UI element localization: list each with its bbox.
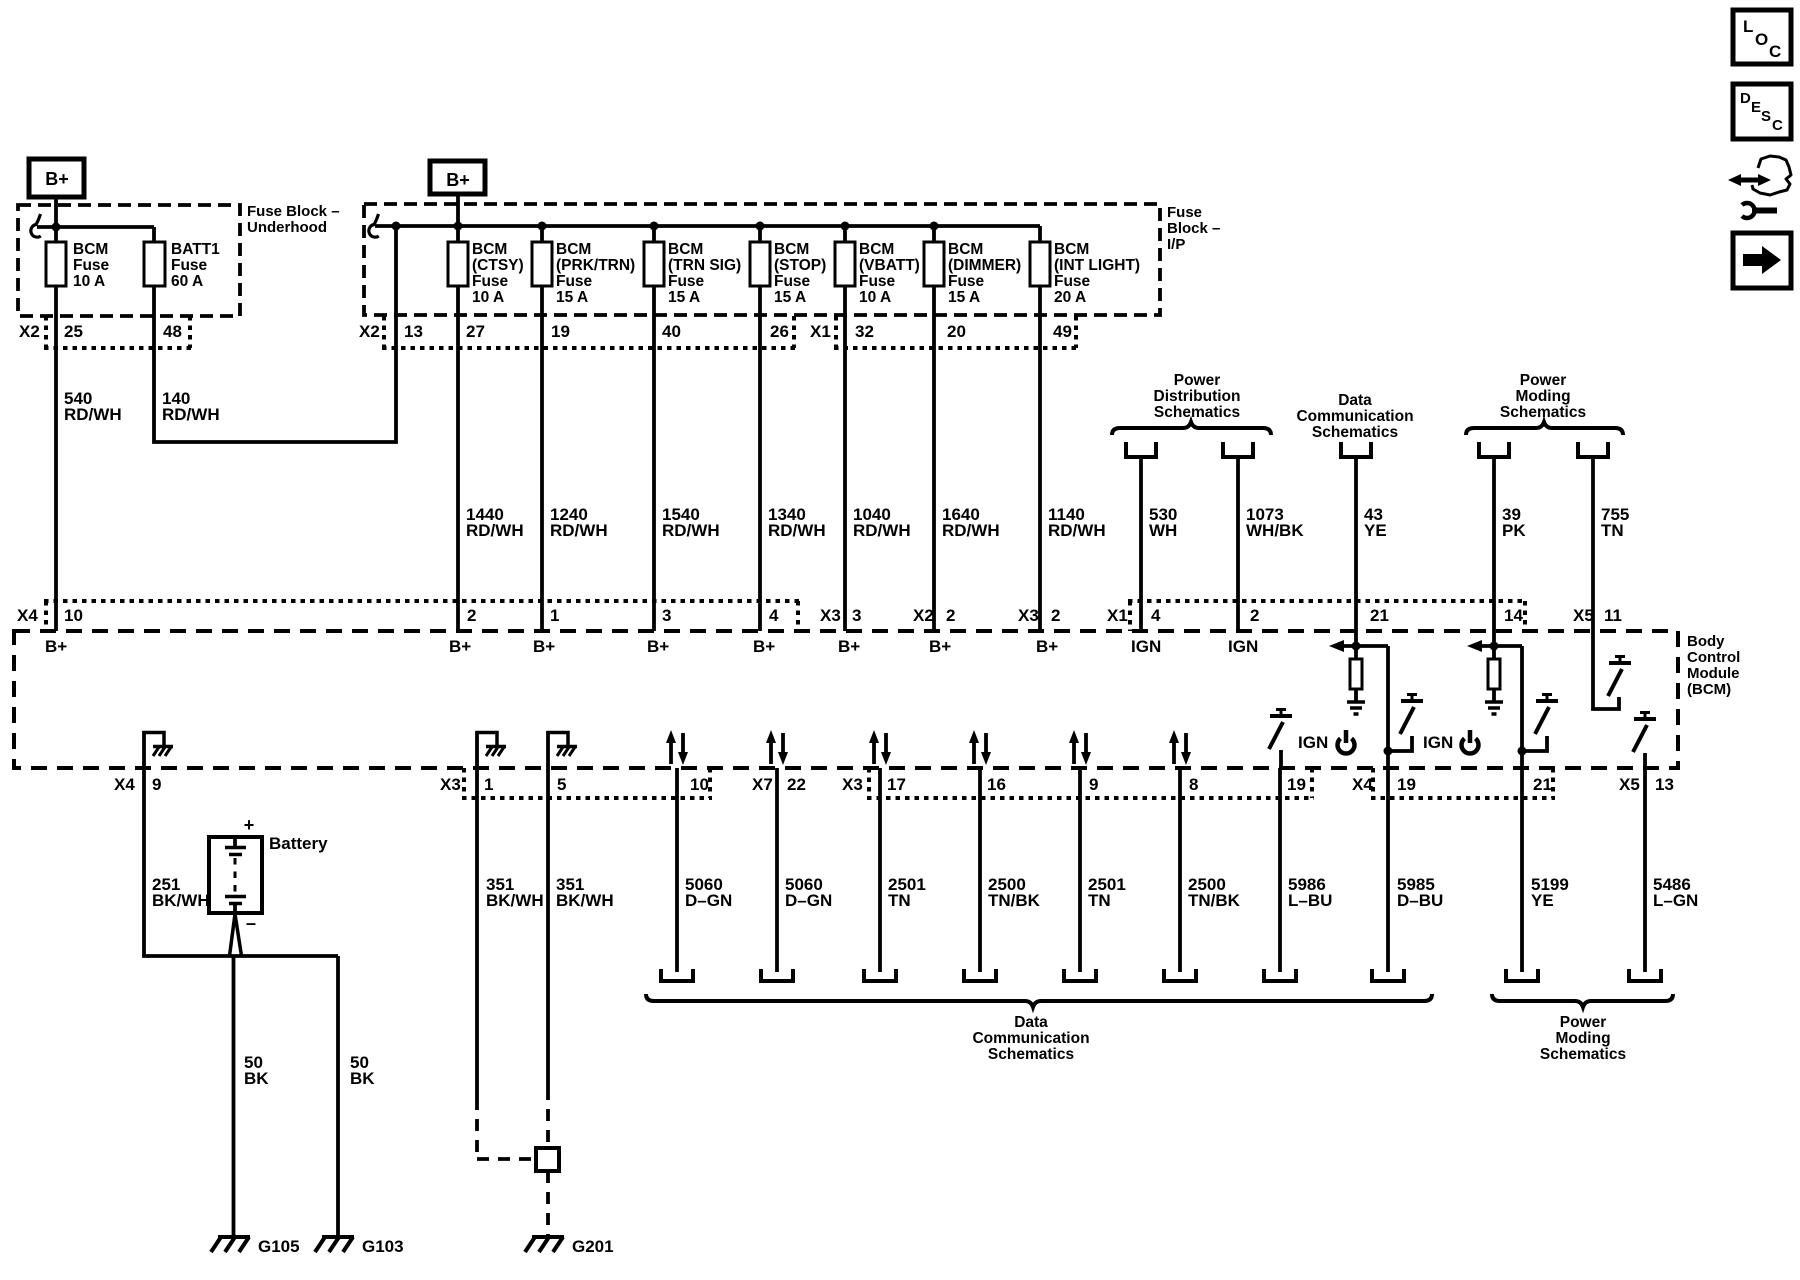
off-page tab 5985 — [1372, 969, 1404, 981]
label 5486 L-GN — [1653, 875, 1698, 910]
svg-text:Communication: Communication — [1296, 408, 1413, 425]
header Power Moding Schematics — [1500, 372, 1586, 421]
ground lead pin X3-1 (chassis ground inside BCM) — [476, 731, 507, 768]
label 1640 RD/WH — [942, 505, 1000, 540]
svg-text:BK/WH: BK/WH — [486, 891, 544, 910]
svg-text:O: O — [1755, 30, 1768, 49]
wire 1440 RD/WH column — [456, 226, 460, 631]
svg-text:Schematics: Schematics — [988, 1046, 1074, 1063]
svg-text:Moding: Moding — [1555, 1030, 1610, 1047]
svg-text:48: 48 — [163, 322, 182, 341]
label 2501 TN (1) — [888, 875, 926, 910]
off-page tab 5060 (2) — [761, 969, 793, 981]
wire 5985 D-BU (pin X4-19) — [1386, 768, 1390, 972]
svg-text:Schematics: Schematics — [1500, 404, 1586, 421]
svg-text:BCM: BCM — [73, 241, 108, 258]
svg-text:Module: Module — [1687, 665, 1740, 682]
data link arrows pin 16 — [969, 730, 991, 765]
svg-text:RD/WH: RD/WH — [853, 521, 911, 540]
svg-text:IGN: IGN — [1423, 733, 1453, 752]
svg-text:I/P: I/P — [1167, 236, 1185, 253]
svg-text:TN: TN — [1088, 891, 1111, 910]
brace data communication — [646, 994, 1432, 1007]
connector terminal hook (underhood) — [31, 214, 41, 237]
svg-text:X2: X2 — [19, 322, 40, 341]
svg-text:RD/WH: RD/WH — [768, 521, 826, 540]
svg-text:G201: G201 — [572, 1237, 614, 1256]
off-page connector tab 530 — [1126, 442, 1156, 457]
pin labels X1 32 20 49 — [810, 322, 1072, 341]
off-page tab 5060 (1) — [661, 969, 693, 981]
svg-text:9: 9 — [152, 775, 161, 794]
svg-text:2: 2 — [467, 606, 476, 625]
svg-text:(PRK/TRN): (PRK/TRN) — [556, 257, 635, 274]
label 50 BK (G103) — [350, 1053, 375, 1088]
connector X1 BCM top (dotted) — [1128, 601, 1527, 631]
label 39 PK — [1502, 505, 1526, 540]
svg-text:49: 49 — [1053, 322, 1072, 341]
svg-text:RD/WH: RD/WH — [466, 521, 524, 540]
data link arrows pin 9 — [1069, 730, 1091, 765]
svg-text:BCM: BCM — [948, 241, 983, 258]
svg-text:D–GN: D–GN — [785, 891, 832, 910]
svg-text:TN: TN — [888, 891, 911, 910]
wire B+ feed I/P — [456, 194, 460, 226]
svg-text:WH: WH — [1149, 521, 1177, 540]
off-page tab 2501 (2) — [1064, 969, 1096, 981]
wire arrow corner down to pin X4-19 — [1386, 646, 1390, 768]
svg-text:2: 2 — [1051, 606, 1060, 625]
fuse block underhood dashed box — [18, 205, 240, 316]
svg-text:14: 14 — [1504, 606, 1523, 625]
fuse BCM (STOP) 15 A — [750, 241, 826, 306]
data link arrows pin 8 — [1169, 730, 1191, 765]
svg-text:BCM: BCM — [774, 241, 809, 258]
pin labels X2 13 27 19 40 26 — [359, 322, 789, 341]
svg-text:1: 1 — [550, 606, 559, 625]
svg-text:TN: TN — [1601, 521, 1624, 540]
svg-text:Fuse: Fuse — [556, 273, 593, 290]
svg-text:Fuse: Fuse — [73, 257, 110, 274]
connector X3 BCM bottom-mid (dotted) — [867, 768, 1314, 798]
label 5060 D-GN (1) — [685, 875, 732, 910]
receive arrow (pin 14) — [1467, 640, 1522, 652]
svg-text:10: 10 — [64, 606, 83, 625]
svg-text:13: 13 — [404, 322, 423, 341]
svg-text:B+: B+ — [45, 169, 69, 189]
svg-text:Underhood: Underhood — [247, 219, 327, 236]
label IGN 1 with power icon — [1298, 730, 1355, 753]
svg-text:L–BU: L–BU — [1288, 891, 1332, 910]
fuse block I/P dashed box — [364, 204, 1160, 315]
svg-text:–: – — [246, 913, 256, 933]
receive arrow (pin 21) — [1329, 640, 1388, 652]
svg-text:10 A: 10 A — [859, 289, 891, 306]
label 1340 RD/WH — [768, 505, 826, 540]
label 50 BK (G105) — [244, 1053, 269, 1088]
svg-text:BCM: BCM — [1054, 241, 1089, 258]
off-page tab 5986 — [1264, 969, 1296, 981]
svg-text:25: 25 — [64, 322, 83, 341]
svg-text:Fuse: Fuse — [948, 273, 985, 290]
junction nodes on bus — [392, 222, 939, 231]
svg-text:Control: Control — [1687, 649, 1740, 666]
label 5985 D-BU — [1397, 875, 1443, 910]
svg-text:Moding: Moding — [1515, 388, 1570, 405]
off-page tab 2500 (1) — [964, 969, 996, 981]
svg-text:X4: X4 — [1352, 775, 1373, 794]
svg-text:C: C — [1769, 42, 1781, 61]
connector X2 underhood (dotted) — [44, 316, 192, 348]
svg-text:3: 3 — [662, 606, 671, 625]
wire 2500 TN/BK (pin 8) — [1178, 768, 1182, 972]
svg-text:B+: B+ — [45, 637, 67, 656]
switch S3 — [1522, 695, 1558, 752]
wire 5486 L-GN (pin X5-13) — [1643, 768, 1647, 972]
connector X3 BCM bottom-left (dotted) — [462, 768, 712, 798]
svg-text:9: 9 — [1089, 775, 1098, 794]
label Fuse Block I/P — [1167, 204, 1220, 253]
power symbol B+ (underhood) — [29, 159, 84, 197]
svg-text:2: 2 — [946, 606, 955, 625]
svg-text:16: 16 — [987, 775, 1006, 794]
ground (earth) R2 — [1485, 702, 1503, 714]
svg-text:X4: X4 — [114, 775, 135, 794]
label 1440 RD/WH — [466, 505, 524, 540]
wire 1040 RD/WH column — [843, 226, 847, 631]
pin labels X4 10 2 1 3 4 — [17, 606, 779, 625]
svg-text:E: E — [1751, 99, 1761, 116]
wire 1540 RD/WH column — [652, 226, 656, 631]
wire 351 BK/WH (pin 5) — [546, 768, 550, 1237]
wire 1640 RD/WH column — [932, 226, 936, 631]
svg-text:Data: Data — [1338, 392, 1372, 409]
svg-text:BATT1: BATT1 — [171, 241, 220, 258]
connector X2 I/P (dotted) — [382, 316, 796, 348]
svg-text:60 A: 60 A — [171, 273, 203, 290]
power symbol B+ (I/P) — [430, 161, 485, 194]
wire 43 YE — [1354, 457, 1358, 631]
wire BATT1 feed / 140 RD/WH — [154, 226, 396, 442]
svg-text:Fuse: Fuse — [668, 273, 705, 290]
svg-text:4: 4 — [1151, 606, 1161, 625]
label Body Control Module (BCM) — [1687, 633, 1740, 698]
svg-text:(DIMMER): (DIMMER) — [948, 257, 1021, 274]
ground lead pin X4-9 (chassis ground inside BCM) — [143, 731, 174, 768]
svg-text:+: + — [244, 815, 255, 835]
svg-text:X2: X2 — [359, 322, 380, 341]
svg-text:B+: B+ — [446, 170, 470, 190]
svg-text:S: S — [1761, 108, 1771, 125]
svg-text:3: 3 — [852, 606, 861, 625]
svg-text:13: 13 — [1655, 775, 1674, 794]
svg-text:Data: Data — [1014, 1014, 1048, 1031]
resistor R1 — [1350, 659, 1362, 689]
off-page connector tab 1073 — [1223, 442, 1253, 457]
off-page connector tab 755 — [1578, 442, 1608, 457]
icon DESC box — [1733, 84, 1791, 139]
svg-text:RD/WH: RD/WH — [550, 521, 608, 540]
svg-text:C: C — [1772, 117, 1783, 134]
wire 2500 TN/BK (pin 16) — [978, 768, 982, 972]
ground G105 — [211, 1237, 300, 1256]
label 540 RD/WH — [64, 389, 122, 424]
label 5060 D-GN (2) — [785, 875, 832, 910]
svg-text:IGN: IGN — [1228, 637, 1258, 656]
wire ground bus under battery — [231, 954, 338, 958]
svg-text:L: L — [1743, 17, 1753, 36]
svg-text:D–BU: D–BU — [1397, 891, 1443, 910]
svg-text:10 A: 10 A — [73, 273, 105, 290]
svg-text:Battery: Battery — [269, 834, 328, 853]
data link arrows pin 17 — [869, 730, 891, 765]
svg-text:Body: Body — [1687, 633, 1725, 650]
svg-text:32: 32 — [855, 322, 874, 341]
brace power moding — [1466, 422, 1623, 435]
fuse BCM Fuse 10 A (underhood) — [46, 241, 110, 290]
fuse BCM (DIMMER) 15 A — [924, 241, 1021, 306]
svg-text:BCM: BCM — [472, 241, 507, 258]
icon vehicle with double arrow — [1728, 156, 1791, 195]
svg-text:20: 20 — [947, 322, 966, 341]
svg-text:40: 40 — [662, 322, 681, 341]
svg-text:D: D — [1740, 90, 1751, 107]
label 251 BK/WH — [152, 875, 210, 910]
svg-text:X3: X3 — [1018, 606, 1039, 625]
footer Power Moding Schematics — [1540, 1014, 1626, 1063]
svg-text:PK: PK — [1502, 521, 1526, 540]
svg-text:BK/WH: BK/WH — [556, 891, 614, 910]
data link arrows pin 10 — [666, 730, 688, 765]
footer Data Communication Schematics — [972, 1014, 1089, 1063]
svg-text:15 A: 15 A — [774, 289, 806, 306]
wire 530 WH — [1139, 457, 1143, 631]
svg-text:2: 2 — [1250, 606, 1259, 625]
battery minus fanout — [230, 914, 242, 956]
brace power moding — [1492, 994, 1673, 1007]
off-page connector tab 39 — [1479, 442, 1509, 457]
off-page tab 2500 (2) — [1164, 969, 1196, 981]
label 2501 TN (2) — [1088, 875, 1126, 910]
svg-text:X7: X7 — [752, 775, 773, 794]
label Fuse Block Underhood — [247, 203, 340, 236]
svg-text:27: 27 — [466, 322, 485, 341]
svg-text:G103: G103 — [362, 1237, 404, 1256]
battery B1 — [209, 837, 262, 913]
svg-text:19: 19 — [551, 322, 570, 341]
svg-text:Fuse: Fuse — [1054, 273, 1091, 290]
svg-text:B+: B+ — [838, 637, 860, 656]
svg-text:X5: X5 — [1619, 775, 1640, 794]
svg-text:26: 26 — [770, 322, 789, 341]
resistor R2 — [1488, 659, 1500, 689]
svg-text:22: 22 — [787, 775, 806, 794]
svg-text:20 A: 20 A — [1054, 289, 1086, 306]
wire 2501 TN (pin 9) — [1078, 768, 1082, 972]
label 2500 TN/BK (2) — [1188, 875, 1241, 910]
svg-text:Fuse: Fuse — [1167, 204, 1202, 221]
svg-text:RD/WH: RD/WH — [64, 405, 122, 424]
svg-text:YE: YE — [1364, 521, 1387, 540]
net labels IGN row — [1131, 637, 1258, 656]
pin labels X5 11 — [1573, 606, 1622, 625]
switch S4 (755 TN branch) — [1608, 657, 1631, 697]
fuse BCM (TRN SIG) 15 A — [644, 241, 741, 306]
wire bus underhood — [37, 225, 154, 229]
svg-text:15 A: 15 A — [948, 289, 980, 306]
svg-text:RD/WH: RD/WH — [662, 521, 720, 540]
svg-text:1: 1 — [484, 775, 493, 794]
wire 5986 L-BU (pin 19) — [1278, 768, 1282, 972]
BCM module dashed box — [14, 631, 1678, 768]
svg-text:Communication: Communication — [972, 1030, 1089, 1047]
wire 5060 D-GN (pin 10) — [675, 768, 679, 972]
ground (earth) R1 — [1347, 702, 1365, 714]
connector X4 BCM bottom-right (dotted) — [1371, 768, 1555, 798]
wire 1073 WH/BK — [1236, 457, 1240, 631]
off-page tab 5199 — [1506, 969, 1538, 981]
ground G201 — [525, 1237, 614, 1256]
icon LOC box — [1733, 10, 1791, 64]
ground lead pin 5 (chassis ground inside BCM) — [547, 731, 578, 768]
svg-text:10 A: 10 A — [472, 289, 504, 306]
svg-text:11: 11 — [1604, 606, 1622, 625]
svg-text:RD/WH: RD/WH — [1048, 521, 1106, 540]
svg-text:5: 5 — [557, 775, 566, 794]
svg-text:X4: X4 — [17, 606, 38, 625]
junction pin 14 / arrow — [1490, 642, 1499, 651]
connector X4 BCM top (dotted) — [44, 601, 800, 631]
wire 5199 YE (pin 21) — [1520, 768, 1524, 972]
fuse BATT1 Fuse 60 A — [144, 241, 220, 290]
svg-text:BK/WH: BK/WH — [152, 891, 210, 910]
svg-text:(VBATT): (VBATT) — [859, 257, 920, 274]
svg-text:WH/BK: WH/BK — [1246, 521, 1304, 540]
svg-text:Fuse: Fuse — [774, 273, 811, 290]
svg-text:IGN: IGN — [1298, 733, 1328, 752]
svg-text:B+: B+ — [647, 637, 669, 656]
svg-text:21: 21 — [1370, 606, 1389, 625]
wire pin 21 branch — [1354, 631, 1358, 702]
svg-text:8: 8 — [1189, 775, 1198, 794]
svg-text:Schematics: Schematics — [1312, 424, 1398, 441]
wire 2501 TN (pin 17) — [878, 768, 882, 972]
label 140 RD/WH — [162, 389, 220, 424]
svg-text:Fuse: Fuse — [171, 257, 208, 274]
label 530 WH — [1149, 505, 1177, 540]
pin labels X3 3 / X2 2 / X3 2 — [820, 606, 1060, 625]
wire arrow corner down to pin 21 bottom — [1520, 646, 1524, 768]
svg-text:X3: X3 — [440, 775, 461, 794]
svg-text:10: 10 — [690, 775, 709, 794]
svg-text:B+: B+ — [533, 637, 555, 656]
svg-text:B+: B+ — [929, 637, 951, 656]
wire bus I/P — [375, 224, 1040, 228]
off-page tab 2501 (1) — [864, 969, 896, 981]
junction — [52, 223, 61, 232]
svg-text:X3: X3 — [820, 606, 841, 625]
wire 755 TN — [1593, 457, 1619, 709]
net labels B+ row — [45, 637, 1058, 656]
svg-text:21: 21 — [1533, 775, 1552, 794]
svg-text:BK: BK — [244, 1069, 269, 1088]
svg-text:15 A: 15 A — [668, 289, 700, 306]
label 5986 L-BU — [1288, 875, 1332, 910]
svg-text:BCM: BCM — [668, 241, 703, 258]
svg-text:Power: Power — [1520, 372, 1567, 389]
wire 1340 RD/WH column — [758, 226, 762, 631]
svg-text:(INT LIGHT): (INT LIGHT) — [1054, 257, 1140, 274]
svg-text:Fuse: Fuse — [472, 273, 509, 290]
wire 5060 D-GN (pin X7-22) — [775, 768, 779, 972]
label 1240 RD/WH — [550, 505, 608, 540]
svg-text:(CTSY): (CTSY) — [472, 257, 524, 274]
wire 351 BK/WH (pin X3-1) — [477, 768, 536, 1159]
pin labels X2 25 48 — [19, 322, 182, 341]
label 1073 WH/BK — [1246, 505, 1304, 540]
svg-text:Schematics: Schematics — [1540, 1046, 1626, 1063]
data link arrows pin X7-22 — [766, 730, 788, 765]
svg-text:BCM: BCM — [556, 241, 591, 258]
off-page tab 5486 — [1629, 969, 1661, 981]
svg-text:Power: Power — [1174, 372, 1221, 389]
wire B+ feed / 540 RD/WH — [54, 197, 58, 631]
svg-text:Distribution: Distribution — [1154, 388, 1241, 405]
svg-text:TN/BK: TN/BK — [988, 891, 1041, 910]
label 5199 YE — [1531, 875, 1569, 910]
svg-text:19: 19 — [1287, 775, 1306, 794]
junction pin 21 wire / switch S3 — [1518, 747, 1527, 756]
svg-text:(STOP): (STOP) — [774, 257, 826, 274]
svg-text:4: 4 — [769, 606, 779, 625]
wire 39 PK — [1492, 457, 1496, 631]
fuse BCM (INT LIGHT) 20 A — [1030, 241, 1140, 306]
label 351 BK/WH (2) — [556, 875, 614, 910]
svg-text:Fuse: Fuse — [859, 273, 896, 290]
junction pin 21 / arrow — [1352, 642, 1361, 651]
connector X1 I/P (dotted) — [834, 316, 1078, 348]
junction X4-19 wire / switch S2 — [1384, 747, 1393, 756]
svg-text:TN/BK: TN/BK — [1188, 891, 1241, 910]
svg-text:Block –: Block – — [1167, 220, 1220, 237]
svg-text:YE: YE — [1531, 891, 1554, 910]
svg-text:X3: X3 — [842, 775, 863, 794]
splice S201 — [536, 1148, 559, 1171]
fuse BCM (VBATT) 10 A — [835, 241, 920, 306]
wire 1240 RD/WH column — [540, 226, 544, 631]
switch S5 (pin X5-13) — [1633, 713, 1656, 769]
svg-text:19: 19 — [1397, 775, 1416, 794]
switch S2 — [1388, 695, 1423, 752]
icon forward arrow box — [1733, 233, 1791, 288]
connector terminal hook (I/P) — [369, 214, 379, 237]
svg-text:RD/WH: RD/WH — [162, 405, 220, 424]
label 2500 TN/BK (1) — [988, 875, 1041, 910]
svg-text:Fuse Block –: Fuse Block – — [247, 203, 340, 220]
svg-text:D–GN: D–GN — [685, 891, 732, 910]
svg-text:X5: X5 — [1573, 606, 1594, 625]
svg-text:(BCM): (BCM) — [1687, 681, 1731, 698]
svg-text:RD/WH: RD/WH — [942, 521, 1000, 540]
pin labels X1 4 2 21 14 — [1107, 606, 1523, 625]
svg-text:B+: B+ — [449, 637, 471, 656]
label 1540 RD/WH — [662, 505, 720, 540]
header Data Communication Schematics — [1296, 392, 1413, 441]
svg-text:B+: B+ — [753, 637, 775, 656]
brace power distribution — [1112, 422, 1271, 435]
wire 50 BK to G103 — [336, 956, 340, 1237]
wire 1140 RD/WH column — [1038, 226, 1042, 631]
